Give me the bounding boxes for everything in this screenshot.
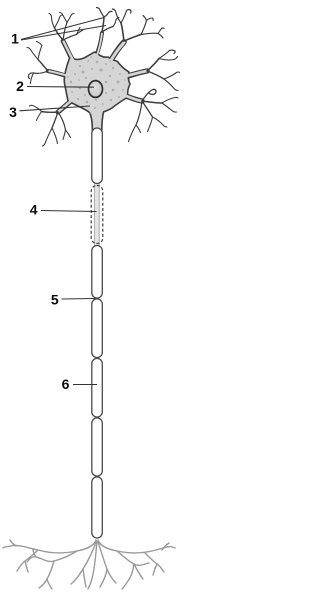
dendrites: left cluster bbox=[27, 42, 48, 84]
myelin segment M5 (pointed to by 6) bbox=[92, 358, 103, 417]
dendrite trunk cores (gray fill over outlines) bbox=[49, 34, 147, 112]
myelin segment M3 bbox=[92, 246, 103, 299]
myelin segment M7 bbox=[92, 477, 103, 538]
dendrites: right cluster bbox=[147, 50, 180, 90]
myelin segment M6 bbox=[92, 418, 103, 476]
dendrites: top-center (pointed to by 1) bbox=[97, 8, 120, 33]
nucleus bbox=[89, 81, 103, 98]
svg-text:4: 4 bbox=[30, 202, 38, 218]
axon terminals (telodendria) bbox=[3, 540, 175, 589]
svg-text:1: 1 bbox=[11, 31, 19, 47]
svg-text:5: 5 bbox=[51, 292, 59, 308]
leader line 6 bbox=[73, 384, 97, 386]
svg-text:2: 2 bbox=[16, 78, 24, 94]
myelin segment M4 bbox=[92, 299, 103, 358]
dendrites: lower-right cluster bbox=[129, 89, 179, 141]
leader line 3 bbox=[20, 106, 91, 111]
leader line 5 bbox=[62, 298, 96, 301]
soma speckles bbox=[67, 56, 126, 114]
dendrites: top-right cluster bbox=[113, 9, 165, 41]
dendrites: top-left cluster bbox=[49, 13, 83, 41]
myelin inner axon tube (behind dashed segment) bbox=[95, 181, 100, 248]
leader line 4 bbox=[41, 211, 97, 212]
leader line 1a bbox=[21, 18, 104, 40]
dendrite trunk outlines (under soma) bbox=[48, 33, 147, 112]
dendrites: lower-left cluster bbox=[30, 105, 71, 146]
leader line 2 bbox=[27, 86, 94, 89]
svg-text:6: 6 bbox=[62, 376, 70, 392]
myelin segment M1 bbox=[92, 128, 103, 184]
myelin segment M2 (dashed, pointed to by 4) bbox=[91, 186, 103, 244]
svg-text:3: 3 bbox=[9, 104, 17, 120]
soma (cell body) with axon hillock funnel bbox=[64, 52, 130, 132]
leader line 1b bbox=[21, 26, 106, 41]
